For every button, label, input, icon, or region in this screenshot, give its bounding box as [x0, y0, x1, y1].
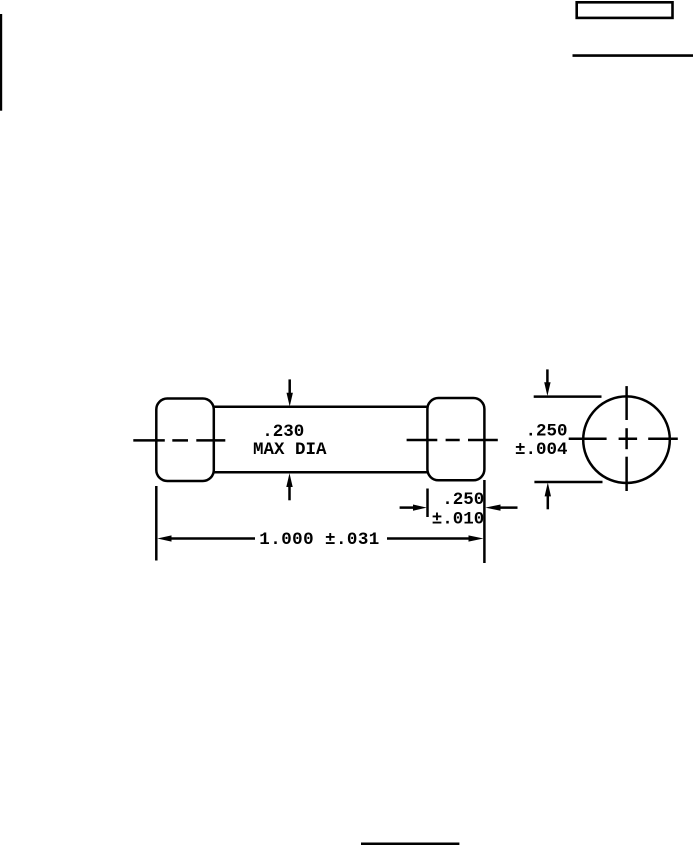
svg-text:MAX DIA: MAX DIA [253, 440, 327, 460]
svg-text:±.010: ±.010 [432, 509, 485, 529]
svg-text:.250: .250 [442, 490, 484, 510]
svg-text:.230: .230 [262, 422, 304, 442]
svg-text:1.000 ±.031: 1.000 ±.031 [259, 530, 379, 550]
svg-text:.250: .250 [525, 421, 567, 441]
svg-text:±.004: ±.004 [515, 440, 568, 460]
